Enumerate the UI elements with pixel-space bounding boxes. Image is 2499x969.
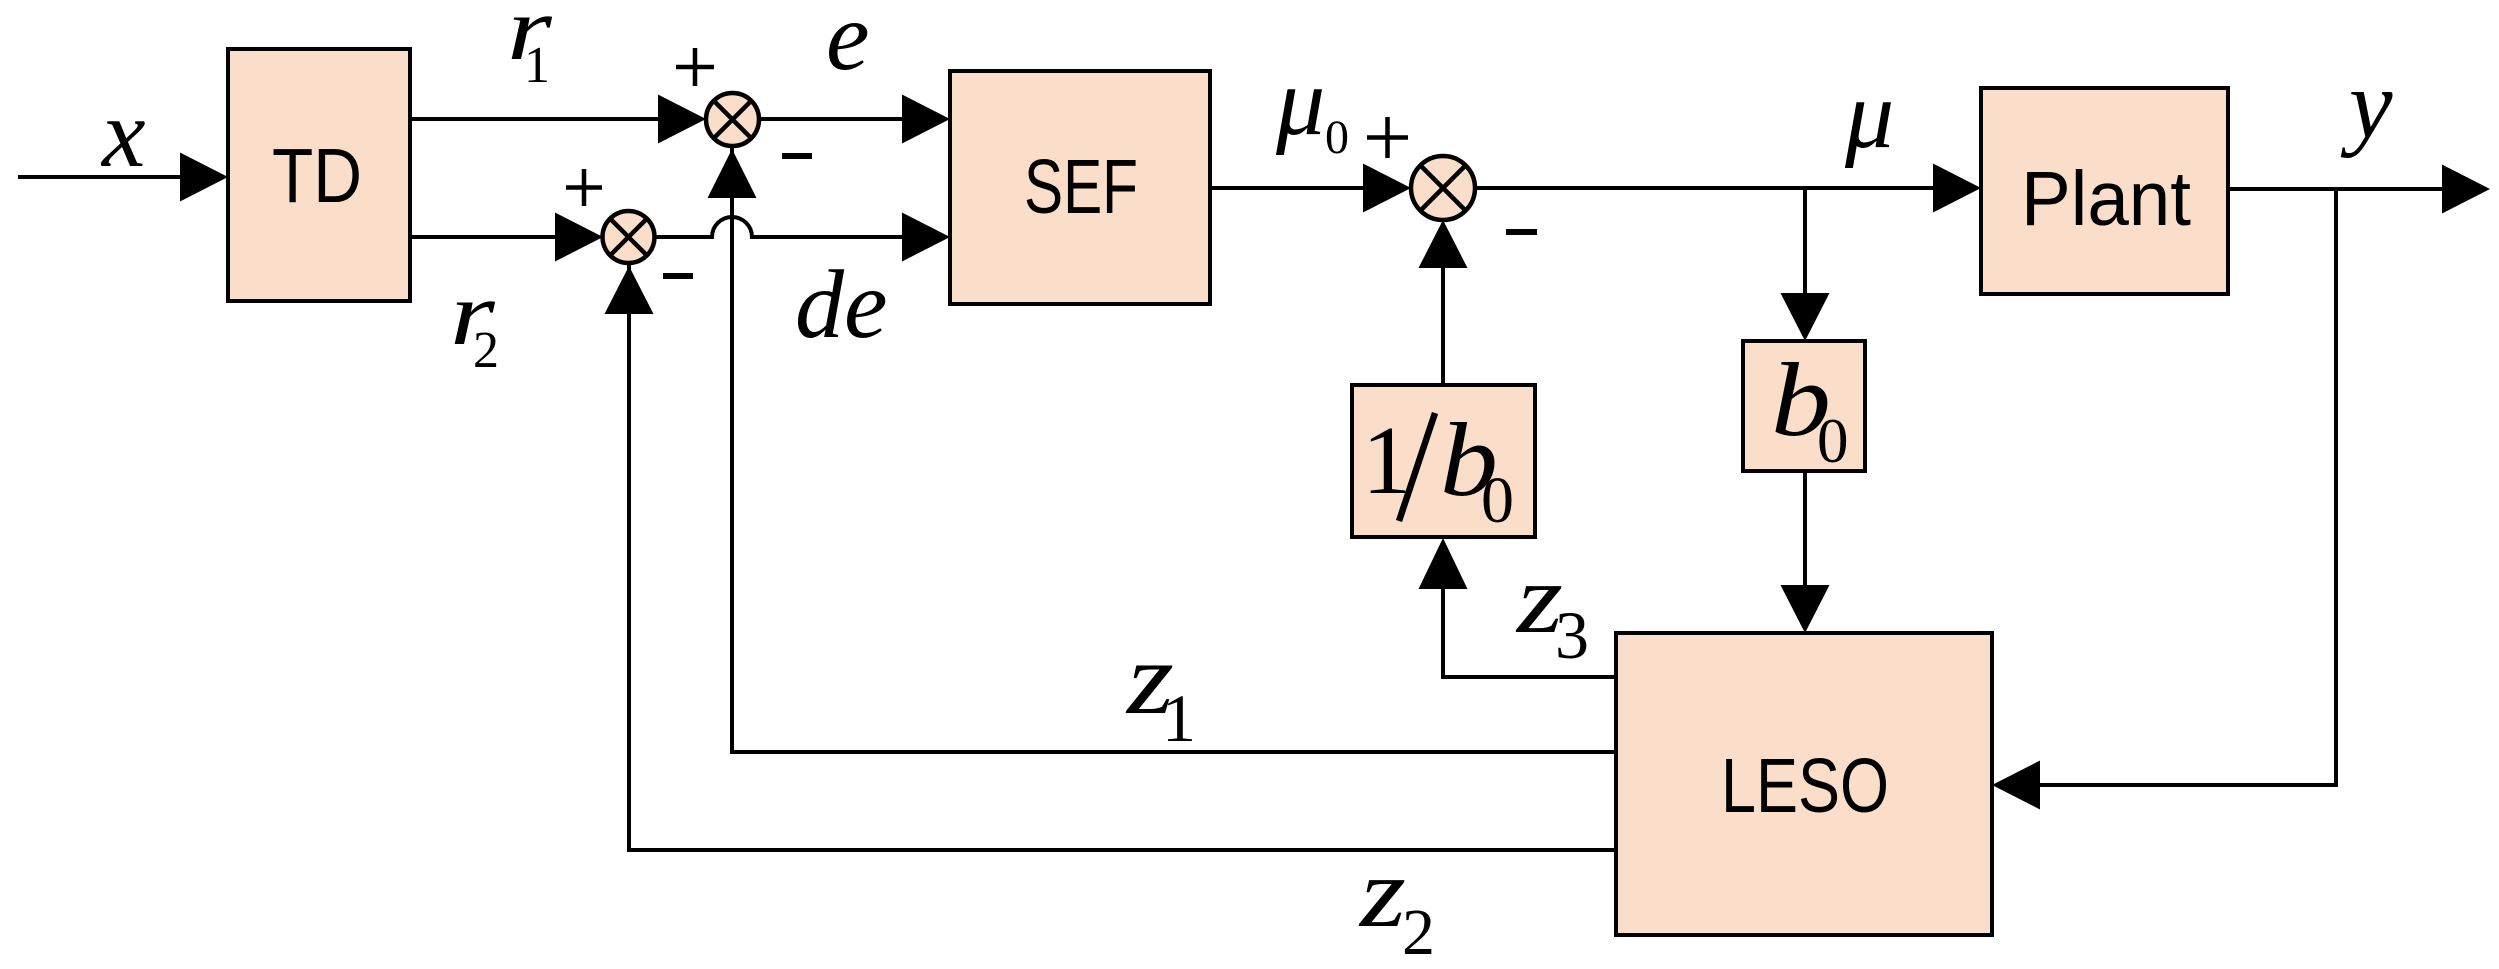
wire 1/b0 up to S3 minus input	[1419, 220, 1468, 385]
wire S2 to SEF de input with hop over z1 line	[655, 213, 951, 262]
wire TD r1 output to summing junction S1	[410, 95, 706, 144]
svg-text:3: 3	[1555, 597, 1589, 673]
wire x input to TD	[18, 153, 228, 202]
node de label	[795, 251, 888, 359]
svg-text:1: 1	[524, 37, 550, 94]
wire Plant to output y with feedback branch node	[2228, 165, 2490, 214]
svg-text:μ: μ	[1844, 61, 1894, 169]
wire z2 from LESO left to vertical riser up into S2	[605, 265, 1617, 850]
block Plant	[1981, 88, 2228, 294]
svg-text:SEF: SEF	[1024, 144, 1138, 230]
summing junction S1	[706, 93, 759, 146]
node mu label	[1844, 61, 1894, 169]
S1 plus sign	[676, 48, 714, 86]
svg-text:e: e	[826, 0, 870, 91]
wire TD r2 output to summing junction S2	[410, 213, 603, 262]
svg-text:2: 2	[1402, 896, 1435, 969]
svg-text:z: z	[1358, 837, 1406, 948]
node z1 label	[1125, 621, 1196, 756]
wire b0 down to LESO	[1781, 471, 1830, 633]
block 1/b0	[1352, 385, 1535, 537]
svg-text:Plant: Plant	[2021, 156, 2191, 242]
node x label	[100, 80, 146, 188]
wire y feedback down and left into LESO	[1992, 189, 2336, 810]
svg-text:LESO: LESO	[1721, 743, 1889, 829]
S3 plus sign	[1367, 117, 1408, 158]
svg-text:0: 0	[1481, 464, 1514, 537]
svg-text:1: 1	[1162, 680, 1196, 756]
node r1 label	[507, 0, 553, 94]
node r2 label	[450, 265, 499, 379]
summing junction S3	[1411, 156, 1475, 220]
block TD	[228, 49, 410, 301]
wire z1 from LESO left to vertical riser up into S1	[708, 148, 1617, 752]
node z3 label	[1515, 543, 1589, 673]
svg-text:de: de	[795, 251, 888, 359]
node y label	[2340, 51, 2393, 159]
S1 minus sign	[782, 153, 812, 159]
wire S1 to SEF e input	[759, 95, 950, 144]
S2 plus sign	[566, 169, 602, 206]
S2 minus sign	[663, 273, 693, 279]
wire SEF output to summing junction S3	[1210, 164, 1411, 213]
svg-text:μ: μ	[1275, 48, 1325, 156]
node mu0 label	[1275, 48, 1349, 164]
svg-text:2: 2	[473, 322, 499, 379]
node z2 label	[1358, 837, 1435, 969]
block LESO	[1616, 633, 1992, 935]
wire S3 to Plant with mu branch node	[1475, 164, 1981, 213]
svg-text:x: x	[100, 80, 146, 188]
wire z3 from LESO left up to 1/b0	[1419, 538, 1617, 677]
node e label	[826, 0, 870, 91]
svg-text:TD: TD	[272, 133, 362, 219]
summing junction S2	[603, 211, 655, 263]
S3 minus sign	[1506, 229, 1537, 235]
svg-text:0: 0	[1817, 406, 1849, 476]
block b0	[1743, 341, 1865, 476]
wire mu branch down to b0	[1781, 188, 1830, 341]
block SEF	[950, 71, 1210, 304]
svg-text:0: 0	[1325, 111, 1349, 164]
